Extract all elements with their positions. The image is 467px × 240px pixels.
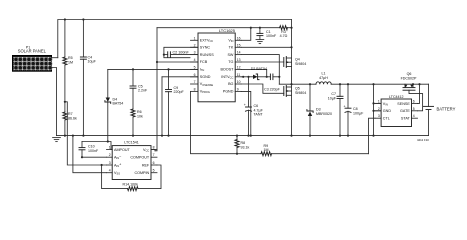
svg-text:4: 4 bbox=[194, 58, 196, 62]
wire top rail VIN bbox=[58, 20, 292, 58]
pin names right bbox=[220, 39, 234, 94]
node R3 right bbox=[290, 27, 292, 29]
svg-text:2: 2 bbox=[194, 43, 196, 47]
svg-text:C7: C7 bbox=[331, 92, 336, 96]
svg-text:4412 F10: 4412 F10 bbox=[417, 138, 429, 142]
svg-text:R6: R6 bbox=[137, 110, 142, 114]
svg-text:AMPOUT: AMPOUT bbox=[114, 148, 131, 152]
svg-text:COMPIN: COMPIN bbox=[134, 171, 149, 175]
svg-text:R5: R5 bbox=[68, 56, 73, 60]
ground C1 bbox=[256, 40, 264, 44]
node FCB bbox=[156, 61, 158, 63]
pin names left bbox=[200, 39, 214, 95]
svg-text:Si9804: Si9804 bbox=[295, 62, 306, 66]
svg-text:TG: TG bbox=[228, 60, 233, 64]
wire ground rail bbox=[57, 135, 429, 137]
svg-text:C5: C5 bbox=[138, 84, 143, 88]
svg-text:100µF: 100µF bbox=[353, 111, 364, 115]
svg-text:4.7Ω: 4.7Ω bbox=[280, 34, 288, 38]
svg-text:VPROG: VPROG bbox=[200, 90, 210, 95]
svg-text:GND: GND bbox=[383, 109, 392, 113]
svg-text:220pF: 220pF bbox=[174, 90, 185, 94]
svg-text:VSS: VSS bbox=[114, 171, 120, 176]
wire FCB bbox=[157, 61, 198, 63]
svg-text:BG: BG bbox=[228, 82, 233, 86]
pin numbers right bbox=[237, 36, 241, 91]
svg-text:VCC: VCC bbox=[143, 148, 149, 153]
svg-text:REF: REF bbox=[142, 163, 150, 167]
svg-text:Q4: Q4 bbox=[295, 58, 300, 62]
svg-text:6: 6 bbox=[194, 73, 196, 77]
wire VIN pin16 riser bbox=[241, 28, 251, 41]
svg-text:3: 3 bbox=[378, 114, 380, 118]
node TK bbox=[290, 46, 292, 48]
svg-text:AIN+: AIN+ bbox=[114, 163, 121, 168]
svg-text:C3 220pF: C3 220pF bbox=[264, 88, 281, 92]
node C9 tap bbox=[167, 68, 169, 70]
diode D3 bbox=[307, 84, 332, 135]
wire CTL riser bbox=[369, 118, 376, 154]
wire panel plus bbox=[52, 57, 58, 59]
node R5 top bbox=[64, 18, 66, 20]
wire divider tap to AIN+ bbox=[65, 102, 107, 165]
node VIN filter junction bbox=[250, 27, 252, 29]
svg-text:BOOST: BOOST bbox=[220, 68, 234, 72]
svg-text:R3: R3 bbox=[281, 30, 286, 34]
svg-text:1: 1 bbox=[109, 146, 111, 150]
svg-text:2: 2 bbox=[378, 107, 380, 111]
svg-text:R7: R7 bbox=[68, 112, 73, 116]
svg-text:16: 16 bbox=[237, 36, 241, 40]
svg-text:COMPOUT: COMPOUT bbox=[130, 156, 150, 160]
inductor L1 bbox=[316, 72, 331, 85]
svg-text:86.6k: 86.6k bbox=[68, 117, 77, 121]
svg-text:2.2nF: 2.2nF bbox=[138, 89, 148, 93]
svg-text:D2 BAT54: D2 BAT54 bbox=[251, 67, 267, 71]
svg-text:PGND: PGND bbox=[223, 90, 234, 94]
wire BG pin10 bbox=[241, 84, 284, 93]
svg-text:100nF: 100nF bbox=[88, 149, 99, 153]
svg-text:C2 100nF: C2 100nF bbox=[173, 51, 190, 55]
svg-text:VIN: VIN bbox=[228, 39, 233, 44]
svg-text:FDC602P: FDC602P bbox=[401, 77, 417, 81]
wire INTVCC pin11 bbox=[241, 76, 253, 78]
node C4 bottom bbox=[82, 135, 84, 137]
node BOOST junction bbox=[266, 76, 268, 78]
svg-text:10k: 10k bbox=[137, 115, 143, 119]
resistor R8 bbox=[235, 136, 249, 154]
node PGND bottom bbox=[250, 135, 252, 137]
capacitor C1 bbox=[257, 28, 277, 40]
wire SGND drop bbox=[161, 77, 163, 136]
svg-text:RUN/SS: RUN/SS bbox=[200, 53, 214, 57]
node ITH comp bbox=[132, 68, 134, 70]
svg-text:STAT: STAT bbox=[401, 117, 411, 121]
wire VSS route bbox=[73, 136, 107, 173]
svg-text:Si9804: Si9804 bbox=[295, 91, 306, 95]
wire SW pin14 bbox=[241, 55, 279, 85]
comparator U2 LTC1541 bbox=[107, 140, 158, 179]
svg-text:EXTVCC: EXTVCC bbox=[200, 39, 214, 44]
svg-text:1: 1 bbox=[378, 99, 380, 103]
node SW junction bbox=[290, 83, 292, 85]
node D3 bottom bbox=[309, 135, 311, 137]
svg-text:14: 14 bbox=[237, 51, 241, 55]
battery B1 bbox=[424, 84, 456, 135]
svg-text:5: 5 bbox=[194, 65, 196, 69]
svg-text:SW: SW bbox=[227, 53, 233, 57]
op-amp U1 LTC1625 bbox=[191, 28, 242, 102]
svg-text:8: 8 bbox=[194, 87, 196, 91]
svg-text:L1: L1 bbox=[322, 72, 326, 76]
svg-text:3: 3 bbox=[194, 51, 196, 55]
svg-text:INTVCC: INTVCC bbox=[221, 75, 233, 80]
capacitor C5 bbox=[130, 69, 148, 109]
wire VIN drop to Q4/Q5 bbox=[291, 20, 293, 136]
solar panel P1 bbox=[13, 45, 53, 71]
svg-text:BATTERY: BATTERY bbox=[437, 107, 456, 112]
node GND pin bbox=[372, 110, 374, 112]
svg-text:LTC1625: LTC1625 bbox=[219, 28, 236, 33]
svg-text:4: 4 bbox=[413, 114, 415, 118]
wire ITH pin5 line bbox=[108, 68, 198, 70]
svg-text:4.7µF: 4.7µF bbox=[254, 108, 264, 112]
capacitor C10 bbox=[79, 142, 107, 158]
svg-text:SENSE: SENSE bbox=[397, 102, 410, 106]
node R7 bottom bbox=[64, 135, 66, 137]
svg-text:BAT54: BAT54 bbox=[113, 102, 124, 106]
capacitor C7 bbox=[328, 84, 343, 135]
svg-text:47µH: 47µH bbox=[319, 76, 328, 80]
svg-text:1M: 1M bbox=[68, 61, 73, 65]
svg-text:100nF: 100nF bbox=[266, 34, 277, 38]
capacitor C9 bbox=[166, 69, 185, 135]
node C8 top bbox=[347, 83, 349, 85]
wire SENSE riser bbox=[418, 84, 420, 103]
node C4 top bbox=[82, 18, 84, 20]
svg-text:MBR0520: MBR0520 bbox=[316, 112, 332, 116]
wire BOOST pin12 riser bbox=[241, 69, 267, 76]
svg-text:5: 5 bbox=[413, 107, 415, 111]
node R8 bottom bbox=[236, 153, 238, 155]
node R6 bottom bbox=[132, 135, 134, 137]
svg-text:D4: D4 bbox=[113, 97, 118, 101]
svg-text:10: 10 bbox=[237, 80, 241, 84]
node C1 tap bbox=[259, 27, 261, 29]
svg-text:C1: C1 bbox=[266, 30, 271, 34]
svg-text:13: 13 bbox=[237, 58, 241, 62]
svg-text:LTC1541: LTC1541 bbox=[124, 140, 139, 144]
svg-text:2: 2 bbox=[109, 153, 111, 157]
wire LTC4412 VIN GND riser bbox=[373, 84, 375, 135]
svg-text:10µF: 10µF bbox=[328, 97, 337, 101]
node D4 to AMPOUT bbox=[107, 140, 109, 142]
svg-text:93.1k: 93.1k bbox=[241, 145, 250, 149]
wire SW rail bbox=[279, 83, 316, 85]
svg-text:TK: TK bbox=[229, 46, 234, 50]
node C7 top bbox=[339, 83, 341, 85]
node C7 bottom bbox=[339, 135, 341, 137]
node VIN riser top bbox=[372, 83, 374, 85]
wire out rail bbox=[331, 83, 428, 85]
wire AMPOUT net bbox=[82, 142, 112, 150]
svg-text:AIN−: AIN− bbox=[114, 155, 121, 160]
transistor Q4 bbox=[284, 57, 306, 68]
svg-text:1M: 1M bbox=[264, 148, 269, 152]
svg-text:4: 4 bbox=[109, 169, 111, 173]
wire gate to GATE pin bbox=[409, 90, 423, 111]
node divider tap bbox=[64, 101, 66, 103]
svg-text:SYNC: SYNC bbox=[200, 46, 211, 50]
svg-text:10µF: 10µF bbox=[88, 60, 97, 64]
svg-text:R8: R8 bbox=[241, 141, 246, 145]
svg-text:+: + bbox=[344, 104, 346, 108]
wire TG pin13 bbox=[241, 61, 284, 63]
node VIN pin bbox=[372, 102, 374, 104]
svg-text:GATE: GATE bbox=[400, 109, 410, 113]
capacitor C2 box bbox=[163, 47, 198, 57]
svg-text:LTC4412: LTC4412 bbox=[389, 95, 404, 99]
resistor R3 bbox=[280, 26, 288, 39]
node Q5 bottom bbox=[290, 135, 292, 137]
svg-text:C9: C9 bbox=[174, 86, 179, 90]
svg-text:1: 1 bbox=[194, 36, 196, 40]
wire SGND row bbox=[162, 76, 198, 78]
node C3 right bbox=[278, 76, 280, 78]
resistor R14 loop bbox=[101, 164, 162, 191]
svg-text:Q5: Q5 bbox=[295, 87, 300, 91]
node VSS rail bbox=[72, 135, 74, 137]
pin stubs left bbox=[191, 40, 199, 91]
svg-text:FCB: FCB bbox=[200, 60, 208, 64]
svg-text:C10: C10 bbox=[88, 144, 95, 148]
svg-text:R14 100k: R14 100k bbox=[123, 182, 139, 186]
ground bbox=[53, 138, 61, 142]
node R8 top bbox=[236, 135, 238, 137]
node INTVCC bbox=[242, 76, 244, 78]
wire panel minus bbox=[52, 68, 57, 136]
node C8 bottom bbox=[347, 135, 349, 137]
capacitor C6 tant bbox=[244, 77, 264, 136]
svg-text:11: 11 bbox=[237, 73, 241, 77]
transistor Q6 bbox=[401, 72, 417, 90]
diode D2 bbox=[251, 67, 267, 80]
svg-text:SGND: SGND bbox=[200, 75, 211, 79]
svg-text:7: 7 bbox=[153, 153, 155, 157]
svg-text:ITH: ITH bbox=[200, 68, 205, 73]
capacitor C8 bbox=[344, 84, 365, 135]
node C6 bottom bbox=[247, 135, 249, 137]
ideal diode U3 LTC4412 bbox=[375, 95, 417, 127]
node D3 top bbox=[309, 83, 311, 85]
node SGND drop bottom bbox=[161, 135, 163, 137]
resistor R5 bbox=[63, 20, 73, 102]
pin stubs right bbox=[235, 40, 241, 91]
wire TK pin15 bbox=[241, 46, 291, 48]
node C9 bottom bbox=[167, 135, 169, 137]
wire vertical A FCB feed bbox=[155, 28, 157, 151]
wire VPROG feedback bbox=[191, 91, 238, 153]
svg-text:15: 15 bbox=[237, 43, 241, 47]
resistor R6 bbox=[131, 109, 143, 136]
svg-text:12: 12 bbox=[237, 65, 241, 69]
transistor Q5 bbox=[284, 86, 306, 97]
svg-text:SOLAR PANEL: SOLAR PANEL bbox=[18, 49, 47, 54]
svg-text:CTL: CTL bbox=[383, 117, 390, 121]
svg-text:3: 3 bbox=[109, 161, 111, 165]
svg-text:C8: C8 bbox=[353, 107, 358, 111]
svg-text:6: 6 bbox=[413, 99, 415, 103]
capacitor C4 bbox=[80, 20, 96, 136]
svg-text:8: 8 bbox=[153, 146, 155, 150]
svg-text:+: + bbox=[244, 103, 246, 107]
svg-text:VIN: VIN bbox=[383, 102, 388, 107]
svg-text:6: 6 bbox=[153, 161, 155, 165]
wire PGND pin9 bbox=[241, 91, 251, 135]
svg-text:5: 5 bbox=[153, 169, 155, 173]
resistor R7 bbox=[63, 102, 77, 136]
wire VIN filter line bbox=[157, 27, 280, 29]
svg-text:Q6: Q6 bbox=[407, 72, 412, 76]
node Q6 source bbox=[412, 83, 414, 85]
svg-text:D3: D3 bbox=[316, 108, 321, 112]
svg-text:TANT: TANT bbox=[254, 113, 264, 117]
svg-text:VOSENSE: VOSENSE bbox=[200, 82, 214, 87]
resistor R9 bbox=[237, 144, 369, 156]
pin numbers left bbox=[194, 36, 196, 91]
node C10 AIN- bbox=[81, 156, 83, 158]
node C6 tap bbox=[247, 76, 249, 78]
svg-text:C4: C4 bbox=[88, 55, 93, 59]
capacitor C3 bbox=[264, 74, 281, 92]
node GND rail bbox=[372, 135, 374, 137]
svg-text:9: 9 bbox=[237, 87, 239, 91]
svg-text:7: 7 bbox=[194, 80, 196, 84]
svg-text:C6: C6 bbox=[254, 104, 259, 108]
node SENSE top bbox=[418, 83, 420, 85]
diode D4 bbox=[105, 69, 123, 141]
